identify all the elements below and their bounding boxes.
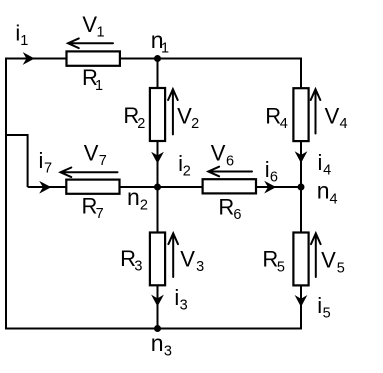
svg-text:5: 5 xyxy=(323,305,331,321)
svg-text:V: V xyxy=(180,246,195,271)
svg-text:2: 2 xyxy=(183,164,191,180)
svg-text:R: R xyxy=(262,246,278,271)
svg-text:6: 6 xyxy=(270,170,278,186)
svg-text:V: V xyxy=(325,104,340,129)
svg-text:4: 4 xyxy=(329,191,337,207)
svg-text:n: n xyxy=(317,178,330,204)
svg-text:4: 4 xyxy=(323,163,331,179)
svg-text:7: 7 xyxy=(99,153,107,169)
svg-text:i: i xyxy=(174,285,179,310)
svg-text:3: 3 xyxy=(164,344,172,360)
svg-text:4: 4 xyxy=(280,116,288,132)
svg-text:6: 6 xyxy=(226,153,234,169)
svg-text:R: R xyxy=(218,194,234,219)
svg-text:4: 4 xyxy=(339,116,347,132)
svg-text:i: i xyxy=(39,148,44,173)
svg-text:V: V xyxy=(321,247,336,272)
svg-text:2: 2 xyxy=(137,116,145,132)
svg-text:5: 5 xyxy=(277,260,285,276)
svg-text:1: 1 xyxy=(95,78,103,94)
svg-text:V: V xyxy=(177,104,192,129)
svg-text:6: 6 xyxy=(233,207,241,223)
svg-text:3: 3 xyxy=(134,259,142,275)
svg-text:2: 2 xyxy=(191,116,199,132)
svg-text:7: 7 xyxy=(96,206,104,222)
svg-text:1: 1 xyxy=(20,33,28,49)
svg-text:7: 7 xyxy=(44,161,52,177)
svg-text:3: 3 xyxy=(180,298,188,314)
svg-text:2: 2 xyxy=(140,198,148,214)
svg-text:i: i xyxy=(317,293,322,318)
svg-text:V: V xyxy=(84,141,99,166)
svg-text:V: V xyxy=(82,12,97,37)
svg-text:R: R xyxy=(265,104,281,129)
svg-text:V: V xyxy=(211,141,226,166)
svg-text:5: 5 xyxy=(337,261,345,277)
svg-text:i: i xyxy=(317,150,322,175)
svg-text:n: n xyxy=(151,330,164,356)
svg-text:3: 3 xyxy=(196,259,204,275)
svg-text:1: 1 xyxy=(97,25,105,41)
svg-text:1: 1 xyxy=(161,41,169,57)
svg-text:n: n xyxy=(127,184,140,210)
